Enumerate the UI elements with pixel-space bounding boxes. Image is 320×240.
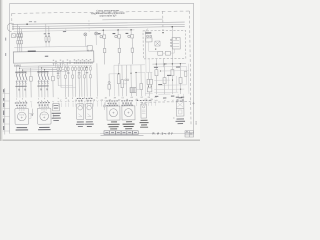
svg-text:18: 18 [113,96,116,99]
aux contact row2 K11 [90,75,92,78]
curved riser wire [145,29,148,59]
contactor group 2 upper terminals [38,72,48,73]
module to cluster links [146,59,152,73]
branch wire 2 [60,66,62,88]
svg-text:23: 23 [130,96,133,99]
svg-text:22: 22 [140,96,142,99]
terminal strip XT0 [101,131,144,136]
block top label [28,51,36,52]
left margin column with ticks [3,88,10,135]
right section feed wires [152,27,186,67]
branch wire 7 [78,66,80,97]
arcs above motor M4 [125,103,131,106]
terminal box XT2 [53,104,60,111]
junction speck right of brake [173,117,174,120]
arcs above motor M2 [41,106,47,109]
left margin rotated text [3,89,4,130]
svg-text:3: 3 [44,97,46,100]
motor M2 caption [38,127,51,130]
label above module [145,32,151,33]
door unit A2 labels above [176,96,184,99]
group 1 feed dots [19,68,20,69]
relay cluster dots [148,86,149,87]
title text block [91,10,126,17]
branch x118.6 with contact [118,65,120,96]
band label speck 7 [78,71,81,74]
door drive unit A2 [176,99,184,116]
door unit A2 caption [176,119,186,125]
T2 label specks [44,32,50,35]
junction dot chain 3 [130,29,132,31]
aux contact row1 K10 [86,67,88,70]
sheet number specks [195,122,197,125]
relay KV2 dot [164,63,165,64]
title block specks [186,131,192,134]
right section labels [154,67,180,86]
branch wire 10 [86,66,88,97]
band label speck 10 [86,71,89,74]
wires bus to fuses FU1-FU3 [17,24,21,33]
aux contact row1 K11 [89,67,91,70]
right section extra dots [160,63,181,90]
interposing component 2 [51,68,54,98]
svg-text:1: 1 [16,97,18,100]
aux contact row2 K1 [57,75,59,78]
long riser wire x97 [96,63,98,96]
branch x126.4 [125,65,127,96]
branch wire 3 [64,66,66,97]
motor M2 terminals [41,109,46,118]
branch x122 with contact [121,65,123,96]
indicator pair circles [125,79,127,81]
motor M2 stator circle [40,112,49,121]
block bottom terminals [53,62,93,64]
dashed partition bottom right [140,101,190,104]
branch wire 8 [81,66,83,97]
aux contact row1 K3 [64,67,66,70]
text above motor M2 [37,102,49,106]
supply bus L1 [13,22,184,24]
supply bus L3 [13,27,184,29]
motor M4 housing [122,106,135,120]
contactor KM1 top chain [100,30,106,64]
dashed machine-room boundary top [12,11,190,13]
page frame [10,3,194,133]
aux contact row2 K9 [84,75,86,78]
door switch SQ1 [103,102,105,110]
contactor KM0 in module [170,37,180,49]
text above motor M4 [121,100,133,106]
bus annotation specks [29,21,36,22]
aux contact row1 K4 [67,67,69,70]
motor M1 stator circle [17,112,26,121]
relay KV0 on block top [87,46,92,51]
tap label at x66 [65,28,67,30]
control transformer taps T2 [45,24,50,47]
branch wire 4 [67,66,69,97]
contactor group 1 upper terminals [16,73,26,74]
right section mesh links [153,64,189,95]
relay KV1 dot [156,63,157,64]
relay coil KV3 [171,64,174,94]
text above motor M3 [106,100,118,106]
branch x145 [144,72,146,95]
contactor group 1 contacts [15,74,27,83]
branch wire 9 [83,66,85,97]
motor M2 outline [37,108,51,124]
supply bus L2 [13,24,184,26]
contactor KM2 top chain [115,30,121,64]
center band collector wire [56,63,145,66]
dashed partition line at x163 [162,11,164,30]
auxiliary box A1 [12,34,16,38]
faint riser x114 [113,65,115,96]
junction dot on bus L1 [26,23,28,25]
motor M3 caption [108,121,120,129]
input connector X1 [7,23,14,32]
motor M1 caption [16,127,29,130]
wire stubs into M2 [40,106,48,108]
group 2 label specks [37,71,48,86]
wires breaker to control block [18,44,22,52]
center band link wires [109,72,153,94]
module junction dots [162,32,163,33]
band label speck 1 [57,72,60,75]
title block table [185,131,194,137]
aux contact row1 K2 [60,67,62,70]
svg-text:9: 9 [72,97,73,100]
group 1 label specks [15,72,26,87]
motor M2 side tab [51,113,53,118]
branch x136 [135,73,137,96]
aux contact row1 K5 [72,67,74,70]
wire from title area to partition [102,18,162,21]
routing wires to contactor group 2 [39,63,68,72]
relay coil KV4 [179,64,182,94]
svg-text:1: 1 [38,97,40,100]
module input terminals [146,35,152,42]
label chain 1 [98,33,101,34]
arcs above motor M1 [19,106,25,109]
relay coil KV2 [163,64,166,94]
terminal box XT2 rows [54,105,59,109]
rectifier bridge VD1 [155,41,160,46]
terminal strip inner specks [105,132,136,133]
wire stubs into M3 [109,104,117,106]
band label speck 4 [67,72,70,75]
left groups wire labels [16,97,49,103]
block inner label TV [45,56,48,57]
scanner edge shadows [0,0,1,141]
wire number labels row [57,96,157,102]
wires to door unit [178,94,183,100]
brake YB1 caption [140,120,149,128]
center band junction dots [86,66,137,75]
label chain 2 [113,33,116,34]
aux contact row1 K1 [57,67,59,70]
branch x141 with contact [140,65,142,96]
indicator lamp HL1 [84,33,87,36]
supply bus N partial [13,30,134,32]
label chain 3 [126,33,129,34]
text above motor M1 [15,102,27,106]
branch wire 5 [72,66,74,97]
breaker QF1 poles [17,40,23,44]
aux contact row1 K9 [83,67,85,70]
svg-text:16: 16 [104,96,107,99]
motor M4 caption [123,121,135,129]
contactor KM3 top chain [128,30,134,64]
svg-text:лифта серии ЩЛ: лифта серии ЩЛ [99,14,117,17]
junction dot chain 2 [117,29,119,31]
module lower parts [149,42,175,56]
wires fuses to breaker QF1 [18,38,22,41]
dashed tap to lamp [88,20,90,32]
branch wire 1 [57,66,59,86]
limit switch VL1 [76,104,83,120]
aux contact row1 K6 [74,67,76,70]
wire stubs into M4 [124,104,132,106]
motor M1 outline [15,108,29,124]
aux contact row1 K8 [81,67,83,70]
branch wire 6 [74,66,76,97]
hatched resistor R5 [130,88,136,93]
right section connector arcs [156,100,182,101]
group 2 arrows [40,88,48,90]
dashed boundary right side [190,11,192,126]
contactor group 1 drop wires [17,84,26,97]
group 1 arrows [18,89,26,91]
aux contact row2 K5 [72,75,74,78]
motor M4 rotor [124,109,132,117]
motor M1 side tab [29,113,33,118]
svg-text:БУАД: БУАД [14,63,21,67]
text above limit switches [77,98,93,102]
sensor body B1 [108,84,111,89]
limit switch VL1 caption [76,121,85,127]
indicator lamp HL2 [95,32,98,35]
limit switch VL2 [85,104,92,120]
contactor group 2 drop wires [39,84,48,97]
svg-text:3: 3 [22,97,24,100]
dashed enclosure of power module [143,30,186,59]
margin speck lower [5,53,6,56]
labels above brake [137,100,151,101]
svg-text:21: 21 [121,96,124,99]
sensor branch x109 [108,74,110,96]
branch wire 11 [89,66,91,97]
right section extra contact [184,71,187,76]
aux contact row2 K3 [65,75,67,78]
limit switch VL2 caption [85,121,94,127]
sensor circle B1 [108,81,110,83]
block name BUAD label [14,63,21,67]
svg-text:1: 1 [57,97,59,100]
contactor group 2 contacts [37,74,49,83]
motor M1 terminals [19,109,24,118]
junction dot on bus L3 right [171,26,173,28]
dashed boundary left stub [11,13,13,24]
svg-text:Я.И.Зч.ЛУ: Я.И.Зч.ЛУ [152,132,173,136]
junction dot chain 1 [103,29,105,31]
motor M3 rotor [109,109,117,117]
brake electromagnet YB1 [141,104,147,118]
wires to machines [17,101,155,107]
relay coil KV1 [155,64,158,94]
relay KV3 dot [172,63,173,64]
right frame reference mark [192,102,195,105]
right section bottom labels [155,96,182,99]
fuse group FU1-FU3 [17,33,23,38]
relay cluster wires [148,72,151,96]
svg-text:6: 6 [96,96,98,99]
relay cluster contacts [147,79,153,92]
left band jog wires [58,86,75,88]
aux contact row2 K7 [78,75,80,78]
contactor group 2 lower terminals [38,83,48,84]
connector arcs row [16,100,156,103]
branch x131 [130,65,132,96]
motor M3 housing [107,106,120,120]
drive control block BUAD [13,51,94,63]
relay KV4 dot [180,63,181,64]
arcs above motor M3 [110,103,116,106]
contactor group 1 lower terminals [16,83,26,84]
wire stubs into M1 [17,107,25,109]
interposing component 1 [29,68,32,98]
block terminal number specks [53,59,91,61]
margin speck upper [5,38,6,41]
wire lamp row to left [14,35,96,47]
divert arrow between motors [31,109,33,116]
aux contact row1 K7 [78,67,80,70]
terminal box XT2 caption [52,113,61,121]
routing wires to contactor group 1 [17,63,61,72]
group 2 feed dots [41,67,42,68]
right section lower links [154,89,184,94]
